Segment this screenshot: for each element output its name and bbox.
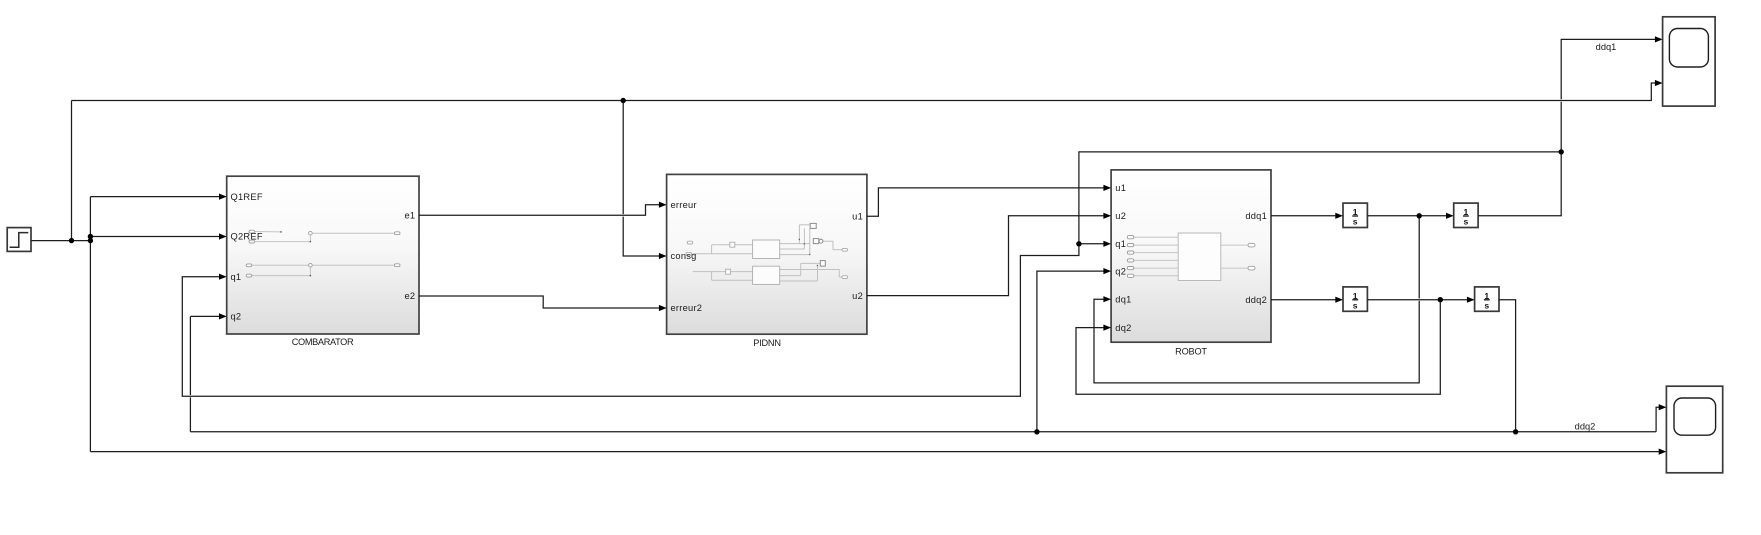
scope Scope ddq1 [1663, 17, 1716, 106]
svg-text:s: s [1353, 217, 1358, 227]
wire q2 into COMBARATOR [190, 315, 219, 317]
wire top run y100 [72, 83, 1656, 101]
svg-text:s: s [1484, 300, 1489, 310]
wire dq1 feedback drop upper (gap at ddq2 row crossing) [1418, 216, 1420, 299]
wire consg drop upper (gap at e1 crossing) [622, 101, 624, 215]
wire q2 riser lower [189, 397, 191, 431]
arrow into Q2REF [219, 233, 227, 239]
arrowheads at input ports [219, 36, 1666, 454]
wire e1 to erreur [419, 205, 660, 216]
svg-text:q1: q1 [231, 272, 242, 282]
svg-text:e2: e2 [404, 291, 415, 301]
wire q2 to Scope1 in1 [1656, 407, 1659, 432]
wire Integrator1 to Integrator2 [1367, 215, 1446, 217]
arrow into COMBARATOR q2 [219, 313, 227, 319]
integrator Integrator1 (1/s) [1343, 203, 1367, 227]
svg-text:ddq2: ddq2 [1575, 421, 1596, 431]
wire Integrator4 out drop [1499, 300, 1516, 432]
svg-text:erreur2: erreur2 [671, 303, 703, 313]
svg-text:s: s [1464, 217, 1469, 227]
wire into Q1REF [90, 196, 219, 198]
svg-text:q2: q2 [1115, 266, 1126, 276]
junction q1 branch y152 [1559, 149, 1564, 154]
svg-text:Q2REF: Q2REF [231, 232, 263, 242]
wire q2 branch up to ROBOT q2 [1037, 271, 1104, 432]
wire reference vertical bus x90 [89, 197, 91, 452]
arrow into consg [659, 253, 667, 259]
svg-text:ROBOT: ROBOT [1175, 346, 1207, 356]
wire consg drop lower [623, 217, 659, 256]
wire q2 riser to COMBARATOR upper (gap at q1 crossing) [189, 316, 191, 395]
wire ddq1 to Integrator1 [1271, 215, 1336, 217]
scope Scope1 ddq2 [1666, 386, 1722, 473]
arrow into ROBOT dq2 [1103, 325, 1111, 331]
svg-text:u1: u1 [1115, 183, 1126, 193]
step source Step [7, 228, 31, 252]
wire Integrator3 to Integrator4 [1367, 299, 1467, 301]
svg-text:s: s [1353, 300, 1358, 310]
wire Integrator2 out upper (gap at top run crossing) [1478, 102, 1561, 216]
arrow into Integrator2 [1446, 213, 1454, 219]
svg-text:q2: q2 [231, 312, 242, 322]
arrow into ROBOT u2 [1103, 213, 1111, 219]
wire u2 to ROBOT u2 [867, 216, 1104, 296]
wire q2 long run y431 [190, 431, 1656, 433]
arrow into Integrator3 [1335, 297, 1343, 303]
svg-text:consg: consg [671, 251, 697, 261]
arrow into Scope1 in1 [1659, 404, 1667, 410]
junction ROBOT q2 feed [1034, 429, 1039, 434]
arrow into ROBOT u1 [1103, 185, 1111, 191]
svg-text:ddq2: ddq2 [1245, 295, 1267, 305]
integrator Integrator2 (1/s) [1454, 203, 1478, 227]
wire ddq2 to Integrator3 [1271, 299, 1336, 301]
arrow into Scope1 in2 [1659, 449, 1667, 455]
wire q1 branch into ROBOT q1 [1079, 243, 1104, 245]
svg-text:u1: u1 [852, 212, 863, 222]
svg-text:dq2: dq2 [1115, 323, 1131, 333]
PIDNN port labels [671, 200, 864, 313]
junction Integrator4 into q2 run [1513, 429, 1518, 434]
wire e2 to erreur2 [419, 296, 660, 308]
svg-text:ddq1: ddq1 [1596, 42, 1617, 52]
ROBOT port labels [1115, 183, 1267, 333]
wire Integrator2 out to Scope in1 [1561, 39, 1655, 99]
arrow into erreur2 [659, 305, 667, 311]
wire dq2 feedback [1076, 300, 1440, 395]
ROBOT thumbnail core [1178, 233, 1221, 281]
wire u1 to ROBOT u1 [867, 188, 1104, 216]
junction ROBOT q1 feed [1076, 241, 1081, 246]
junction dq2 branch [1438, 297, 1443, 302]
svg-text:erreur: erreur [671, 200, 697, 210]
subsystem ROBOT [1111, 170, 1271, 342]
svg-text:u2: u2 [1115, 211, 1126, 221]
arrow into Integrator1 [1335, 213, 1343, 219]
arrow into Scope in2 [1655, 80, 1663, 86]
COMBARATOR port labels [231, 192, 416, 322]
svg-text:ddq1: ddq1 [1245, 211, 1267, 221]
subsystem COMBARATOR [227, 176, 419, 334]
svg-text:PIDNN: PIDNN [753, 338, 781, 348]
arrow into ROBOT q2 [1103, 268, 1111, 274]
wire top-left vertical x71 [71, 101, 73, 241]
junction consg branch on top run [621, 98, 626, 103]
junction dq1 branch [1417, 213, 1422, 218]
arrow into COMBARATOR q1 [219, 274, 227, 280]
subsystem PIDNN [667, 174, 867, 334]
arrow into ROBOT q1 [1103, 241, 1111, 247]
arrow into ROBOT dq1 [1103, 296, 1111, 302]
junction step branch x71 [69, 238, 74, 243]
junction step into bus [88, 238, 93, 243]
integrator Integrator4 (1/s) [1475, 287, 1499, 311]
svg-text:e1: e1 [404, 211, 415, 221]
arrow into Q1REF [219, 194, 227, 200]
arrow into erreur [659, 202, 667, 208]
wire dq1 feedback drop lower and return [1094, 299, 1419, 383]
wire step output to junction x90 [31, 240, 90, 242]
integrator Integrator3 (1/s) [1343, 287, 1367, 311]
svg-text:COMBARATOR: COMBARATOR [292, 337, 354, 347]
svg-text:dq1: dq1 [1115, 294, 1131, 304]
svg-text:Q1REF: Q1REF [231, 192, 263, 202]
arrow into Scope in1 [1655, 36, 1663, 42]
wire into Q2REF [90, 236, 219, 238]
wire q1 branch from junction y152 [182, 152, 1561, 396]
PIDNN thumbnail sketch [693, 225, 842, 281]
ROBOT thumbnail sketch [1134, 237, 1248, 276]
svg-text:q1: q1 [1115, 239, 1126, 249]
COMBARATOR thumbnail sketch [252, 232, 395, 276]
arrow into Integrator4 [1467, 297, 1475, 303]
junction Q2REF branch [88, 234, 93, 239]
svg-text:u2: u2 [852, 291, 863, 301]
wire reference bottom run to Scope1 in2 [90, 451, 1658, 453]
